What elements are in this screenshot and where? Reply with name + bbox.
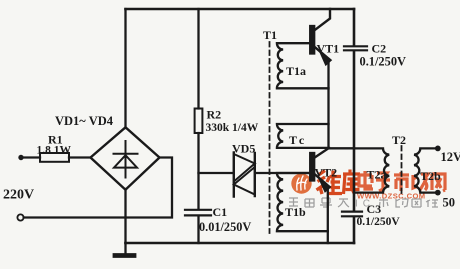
svg-text:1.8 1W: 1.8 1W (37, 145, 72, 157)
winding T1b (277, 173, 328, 231)
diac VD5 triangles (234, 154, 255, 195)
wire R1 to bridge (69, 156, 91, 158)
wire VT1 emitter down node (327, 61, 329, 148)
bridge rectifier VD1~VD4 diamond (91, 127, 160, 189)
watermark character Wei (317, 171, 343, 195)
svg-text:VT2: VT2 (315, 166, 338, 180)
terminal input neutral circle (17, 214, 23, 220)
svg-text:T1: T1 (263, 28, 277, 42)
transistor VT2 base bar (310, 153, 314, 181)
transistor VT2 collector (314, 148, 328, 158)
terminal output 12V dot (435, 146, 441, 152)
diac VD5 electrodes (234, 153, 255, 197)
svg-text:Tc: Tc (289, 133, 307, 147)
svg-text:220V: 220V (3, 188, 34, 203)
watermark logo circle (291, 173, 311, 193)
wire top rail (126, 8, 355, 11)
resistor R2 (195, 109, 203, 134)
wire bridge bottom vertical (124, 189, 126, 243)
wire node to VD5 and VD5 to VT2 base (199, 172, 311, 174)
wire R2 to node and C1 (197, 133, 199, 209)
svg-text:T1a: T1a (286, 64, 306, 78)
transistor VT2 emitter (314, 174, 326, 184)
capacitor C3 (342, 212, 362, 217)
svg-text:T2a: T2a (367, 168, 387, 182)
transistor VT1 base bar (310, 26, 314, 54)
svg-text:12V: 12V (441, 150, 460, 164)
transistor VT1 collector (314, 9, 330, 31)
svg-text:C2: C2 (372, 42, 387, 56)
wire bridge top vertical (124, 9, 126, 128)
svg-text:T2: T2 (392, 133, 406, 147)
svg-text:VD5: VD5 (232, 142, 255, 156)
winding Tc (277, 124, 329, 148)
transistor VT2 emitter arrow (319, 178, 331, 192)
watermark characters Dian Zi Shi Chang Wang (359, 171, 445, 191)
terminal input live dot (18, 155, 23, 160)
svg-text:330k 1/4W: 330k 1/4W (206, 122, 259, 134)
terminal output 50 dot (435, 190, 441, 196)
wire C1 to bottom rail (197, 216, 199, 243)
resistor R1 (40, 153, 69, 162)
winding T1a (277, 43, 329, 88)
wire node to T2a (329, 147, 355, 149)
winding T2a (354, 148, 389, 192)
wire VT2 emitter to bottom rail (327, 187, 329, 243)
wire bottom rail (126, 242, 355, 245)
transistor VT1 emitter arrow (320, 51, 332, 65)
watermark gray slogan row (289, 198, 349, 207)
transistor VT1 emitter (314, 47, 326, 58)
capacitor C2 (344, 46, 367, 50)
wire input neutral to bridge (24, 158, 172, 218)
bridge diode symbol (114, 141, 138, 178)
wire top rail to R2 (197, 9, 199, 109)
wire input live to R1 (21, 156, 40, 158)
transformer T2 core (401, 146, 403, 194)
ground stub (124, 243, 126, 255)
svg-text:T2b: T2b (420, 169, 441, 183)
svg-text:C1: C1 (213, 205, 228, 219)
wire right rail (353, 9, 356, 243)
capacitor C1 (185, 210, 211, 216)
transformer T1 core (269, 42, 271, 233)
svg-text:0.1/250V: 0.1/250V (357, 216, 401, 228)
svg-text:T1b: T1b (285, 205, 306, 219)
watermark character Ku (343, 170, 360, 195)
winding T2b (414, 148, 438, 192)
svg-text:C3: C3 (367, 202, 382, 216)
svg-text:0.1/250V: 0.1/250V (360, 55, 407, 69)
svg-text:VD1~ VD4: VD1~ VD4 (55, 114, 114, 128)
svg-text:VT1: VT1 (317, 42, 340, 56)
ground bar (115, 253, 134, 258)
svg-text:0.01/250V: 0.01/250V (199, 220, 251, 234)
svg-text:50: 50 (443, 196, 456, 210)
svg-text:R2: R2 (207, 108, 222, 122)
